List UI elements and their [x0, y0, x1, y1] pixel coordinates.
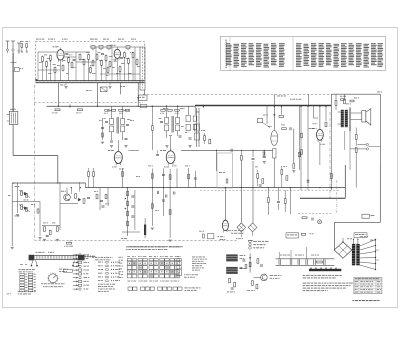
capacitor C40	[100, 199, 103, 201]
wire drop b	[97, 83, 99, 107]
grid cells	[127, 261, 131, 265]
diode D5	[26, 194, 28, 198]
wire tuner v10	[60, 60, 62, 81]
node tick	[202, 105, 204, 108]
transistor Q1	[64, 194, 71, 201]
resistor R33	[335, 101, 337, 106]
label ll	[15, 185, 18, 188]
wire tuner h5	[38, 69, 60, 71]
switch table footer	[18, 290, 21, 293]
resistor R77	[168, 109, 172, 111]
grid legend text2	[184, 273, 185, 276]
power rail top	[276, 258, 335, 260]
grid legend text	[192, 256, 195, 259]
resistor R61	[302, 217, 307, 219]
capacitor C28	[259, 184, 262, 186]
legend row 2	[249, 243, 252, 246]
resistor R18	[132, 53, 134, 58]
wire drop a	[58, 83, 60, 107]
wire tuner v16	[116, 58, 118, 80]
tuning knob	[49, 274, 58, 283]
electrolytic bar	[144, 225, 146, 236]
resistor R39	[331, 174, 333, 179]
resistor R76	[161, 109, 165, 111]
wire mr4	[325, 106, 327, 121]
resistor R73	[111, 109, 115, 111]
wire lc2	[107, 188, 109, 206]
ground g9	[11, 246, 14, 248]
resistor R43	[83, 199, 85, 204]
resistor R82	[105, 194, 107, 198]
wire tuner v13	[88, 59, 90, 80]
grid header row	[127, 255, 130, 258]
ground g7	[151, 227, 154, 229]
transformer tap fan	[360, 240, 376, 247]
resistor R30	[279, 116, 284, 118]
wire drop d	[137, 83, 139, 107]
wire tuner h4	[76, 61, 96, 63]
wire mr2	[307, 106, 309, 190]
resistor R13	[101, 61, 103, 66]
diode D9	[26, 208, 28, 212]
small box K1	[208, 234, 214, 239]
wire chain drop3	[306, 247, 308, 259]
label tuner top	[36, 39, 39, 40]
wire chain drop2	[290, 250, 292, 259]
resistor R53	[151, 204, 153, 209]
wire det drop2	[252, 161, 254, 223]
label pot	[119, 168, 121, 171]
resistor R70	[55, 109, 60, 111]
wire antenna lead	[12, 53, 14, 112]
diode D8	[21, 205, 23, 210]
capacitor C11	[230, 149, 232, 152]
symbol list row 1	[73, 254, 78, 256]
resistor R3	[42, 57, 44, 62]
connector box X2	[139, 95, 148, 101]
IF transformer T1	[110, 119, 114, 125]
wire tuner h3	[64, 56, 76, 58]
capacitor C38	[242, 259, 245, 261]
resistor R51	[169, 175, 171, 180]
capacitor C10	[156, 153, 159, 155]
wire tuner h1	[38, 51, 57, 53]
resistor R45	[88, 172, 90, 177]
ground g3	[165, 145, 168, 147]
resistor R1	[21, 44, 23, 48]
wire lc1	[99, 188, 101, 210]
capacitor C29	[311, 218, 313, 221]
resistor R11	[92, 61, 94, 66]
switch table header	[19, 269, 21, 270]
wire cb2	[289, 188, 291, 214]
resistor R37	[341, 99, 345, 101]
capacitor C23	[162, 199, 165, 201]
resistor R42	[75, 194, 77, 199]
resistor R74	[119, 109, 123, 111]
symbol list row 4	[73, 265, 78, 267]
wire stub t1	[274, 94, 276, 106]
electrolytic can C31	[226, 267, 238, 274]
resistor R26	[151, 126, 153, 131]
mains transformer T5	[352, 244, 355, 265]
label antenna	[20, 40, 23, 43]
antenna terminal A2	[11, 40, 15, 42]
wire anode v5	[298, 106, 300, 170]
symbol list row 3	[73, 262, 78, 264]
label dial	[36, 252, 38, 253]
wire tuner v4	[111, 47, 113, 81]
wire mr5	[331, 126, 333, 190]
capacitor C22	[194, 177, 197, 179]
resistor R23	[107, 68, 109, 73]
resistor R65	[257, 259, 259, 264]
wire tick bus	[69, 104, 71, 108]
tuner enclosure dashed box	[36, 42, 145, 82]
switch table col2	[28, 273, 33, 275]
legend row 3	[249, 247, 252, 250]
resistor R47	[44, 227, 46, 232]
capacitor C9	[189, 137, 192, 139]
wire tuner v14	[101, 65, 103, 80]
output stage box	[331, 93, 380, 95]
ground stub rail 2	[109, 83, 111, 86]
main HT bus	[47, 105, 196, 107]
ground g4	[188, 145, 191, 147]
label knob top	[59, 268, 62, 271]
resistor R4	[46, 62, 48, 67]
wire chain drop1	[279, 252, 281, 259]
wire tuner v8	[50, 60, 52, 80]
lamp branch	[249, 254, 251, 273]
wire det drop1	[240, 160, 242, 223]
ground g5	[43, 238, 46, 240]
resistor R59	[281, 170, 283, 175]
label below rails	[60, 84, 63, 87]
connector box X1	[100, 87, 107, 92]
resistor R19	[136, 60, 138, 65]
resistor R20	[62, 66, 64, 71]
tube V5 EABC80	[271, 131, 278, 146]
coil L1 box	[11, 62, 17, 64]
label cb	[283, 165, 285, 168]
resistor R34	[344, 99, 346, 104]
resistor R36	[355, 148, 357, 153]
pcb outline left	[33, 85, 35, 241]
pcb outline top1	[34, 102, 143, 104]
symbol list header right	[93, 257, 95, 258]
power rail bottom	[276, 264, 335, 266]
symbol list row 5	[73, 269, 78, 271]
ground stub rail 1	[65, 83, 67, 86]
IF transformer T2	[165, 118, 169, 124]
resistor R14	[105, 56, 107, 61]
resistor R52	[188, 174, 190, 179]
resistor R71	[78, 109, 83, 111]
electrolytic can C30	[226, 254, 238, 261]
capacitor C21	[162, 173, 165, 175]
potentiometer P1 chain	[127, 188, 129, 236]
dial bracket left	[29, 255, 34, 260]
resistor R49	[56, 227, 58, 232]
pcb outline bottom	[34, 239, 237, 241]
grid tall cell	[177, 269, 181, 276]
capacitor C14	[289, 127, 291, 130]
symbol row right 2	[98, 264, 101, 267]
resistor R72	[105, 109, 109, 111]
speaker feed wire	[335, 221, 381, 223]
wire cb	[224, 187, 226, 189]
resistor R84	[298, 152, 300, 157]
dial legs left	[32, 260, 34, 265]
wire v5 drop	[273, 158, 275, 188]
switch box S2	[354, 233, 367, 238]
resistor R2	[26, 44, 28, 48]
symbol row right 1	[98, 261, 101, 264]
capacitor C25	[165, 195, 167, 198]
label tone	[43, 222, 46, 225]
resistor R75	[125, 109, 129, 111]
parts table text columns	[226, 42, 230, 45]
label chain	[280, 254, 282, 257]
caption pcb	[129, 246, 133, 247]
dial legs right	[73, 260, 75, 265]
indicator D6	[237, 223, 246, 232]
resistor R21	[54, 68, 56, 73]
capacitor C6	[110, 140, 113, 142]
wire tuner v5	[134, 47, 136, 81]
label transformer	[360, 235, 363, 238]
wire tuner v1	[37, 52, 39, 81]
resistor R44	[87, 196, 90, 198]
caption bottom right	[353, 300, 355, 301]
label T2 parts	[181, 125, 184, 128]
filter capacitor C36	[313, 259, 315, 265]
fuse box F1	[362, 214, 369, 218]
capacitor C7	[125, 137, 128, 139]
wire tuner v3	[95, 47, 97, 81]
capacitor C19	[131, 205, 134, 207]
label mid	[148, 165, 151, 168]
resistor R50	[151, 174, 153, 179]
wire stub t2	[308, 94, 310, 106]
resistor R63	[251, 281, 253, 286]
wire tuner h6	[100, 73, 140, 75]
ground g8	[169, 239, 172, 241]
tube V3	[114, 152, 122, 164]
wire tuner v9	[54, 72, 56, 80]
filter capacitor C35	[305, 259, 307, 265]
symbol row right 6	[98, 279, 100, 282]
resistor R28	[209, 139, 211, 144]
grid row labels	[119, 256, 122, 259]
resistor R57	[257, 174, 259, 179]
bus rail lower	[36, 82, 145, 84]
pcb outline right	[329, 112, 331, 198]
capacitor C5	[120, 56, 123, 58]
resistor R81	[96, 194, 98, 199]
indicator D7	[248, 223, 257, 232]
transformer leads top	[353, 240, 355, 244]
resistor R15	[109, 62, 111, 67]
pcb outline top2	[143, 93, 331, 95]
capacitor C17	[46, 234, 49, 236]
resistor R55	[267, 198, 269, 203]
pcb dash inner	[336, 180, 338, 214]
transistor Q2	[261, 274, 268, 281]
AF main bus	[86, 187, 346, 189]
wire tuner v20	[119, 71, 121, 80]
symbol row right 4	[98, 272, 102, 275]
resistor R8	[79, 55, 81, 60]
tube V1 ECC85	[57, 50, 64, 60]
wire mid verticals	[151, 169, 153, 227]
bridge rectifier GR1	[334, 242, 352, 258]
wire q1	[60, 203, 78, 205]
coil row tuner	[91, 46, 95, 49]
AVC dashed line	[200, 189, 340, 191]
trimmer box	[257, 119, 262, 123]
resistor R54	[169, 210, 171, 215]
resistor R83	[67, 242, 72, 244]
wire tuner v12	[83, 64, 85, 80]
resistor R17	[128, 59, 130, 64]
symbol list row 2	[73, 258, 78, 260]
symbol list row 8	[73, 281, 78, 283]
capacitor C12	[252, 157, 255, 159]
symbol row right 3	[98, 268, 100, 271]
symbol list row 10	[73, 288, 78, 290]
resistor R12	[96, 55, 98, 60]
wire tuner v17	[124, 57, 126, 80]
wire tuner v6	[42, 61, 44, 80]
terminal J1	[366, 143, 368, 145]
resistor R5	[50, 56, 52, 61]
resistor R9	[83, 60, 85, 65]
wire ferrite to AF	[12, 125, 14, 156]
dial extension	[85, 255, 96, 257]
note text rows	[226, 229, 228, 232]
pilot circle	[318, 220, 322, 224]
note block 1	[303, 275, 305, 276]
IF coil T2b	[186, 116, 190, 122]
dashed stub	[298, 212, 332, 214]
antenna terminal A3	[17, 42, 21, 44]
ratio det coil T3	[195, 108, 197, 147]
tiny marks	[20, 263, 23, 266]
ground g2	[124, 145, 127, 147]
coupling box	[217, 153, 232, 188]
resistor R62	[229, 278, 231, 283]
grid bottom labels	[128, 280, 131, 283]
symbol row right 5	[98, 275, 101, 278]
small box knob	[63, 269, 72, 272]
resistor R24	[119, 67, 121, 72]
grid caption	[126, 245, 129, 248]
switch box S1	[286, 233, 299, 238]
filter capacitor C32	[278, 259, 280, 265]
terminal J2	[366, 148, 368, 150]
junction dots	[58, 106, 59, 107]
resistor R16	[124, 53, 126, 58]
capacitor C1	[65, 52, 68, 54]
parts table header column text	[226, 40, 227, 42]
wire grid v5	[266, 106, 268, 124]
bus rail upper	[36, 80, 145, 82]
AF bus left	[13, 182, 85, 184]
resistor R80	[37, 209, 39, 213]
ferrite rod antenna L2	[9, 112, 17, 125]
note block 2	[303, 283, 307, 284]
wire tuner v7	[46, 66, 48, 80]
ground g1	[110, 145, 113, 147]
heater bus	[300, 197, 345, 199]
symbol list row 6	[73, 273, 78, 275]
choke box	[140, 104, 146, 107]
rail end mark	[35, 79, 37, 81]
resistor R7	[71, 63, 73, 68]
margin note	[7, 292, 10, 295]
resistor R6	[68, 58, 70, 63]
resistor R10	[88, 55, 90, 60]
wire v5 right	[293, 129, 295, 163]
symbol list row 7	[73, 277, 78, 279]
resistor R29	[240, 156, 242, 161]
wire ll	[11, 183, 13, 246]
wire mr1	[300, 106, 302, 190]
wire pot	[134, 190, 136, 230]
capacitor C8	[179, 135, 182, 137]
resistor R22	[90, 68, 92, 73]
grid bottom boxes	[128, 287, 132, 290]
left column cap	[102, 118, 104, 140]
resistor R35	[355, 135, 357, 140]
wire tuner v11	[68, 62, 70, 80]
capacitor C41	[102, 205, 105, 207]
resistor R85	[263, 152, 265, 156]
legend row 1	[249, 240, 252, 243]
capacitor C2	[73, 58, 76, 60]
FM tuner right section box	[140, 47, 145, 90]
wire tuner coil row	[90, 46, 140, 48]
tube V2	[114, 49, 120, 58]
resistor R87	[301, 233, 305, 235]
ground g11	[16, 214, 19, 216]
capacitor C3	[101, 52, 104, 54]
diode D4	[21, 191, 23, 196]
antenna terminal A1	[6, 40, 10, 42]
filter capacitor C34	[297, 259, 299, 265]
dial bracket right	[78, 255, 85, 260]
label bus right	[290, 98, 292, 101]
ground g10	[38, 237, 41, 239]
tube V4	[166, 151, 175, 164]
resistor R56	[284, 199, 286, 204]
resistor R58	[262, 179, 264, 184]
tone row	[42, 225, 60, 227]
tube V7	[222, 220, 228, 230]
capacitor C13	[263, 155, 266, 157]
wire tuner v2	[75, 52, 77, 81]
label output top	[340, 95, 342, 98]
capacitor C27	[277, 200, 280, 202]
label T1	[107, 109, 109, 112]
wire ll2	[12, 200, 40, 202]
wire tuner v15	[105, 60, 107, 80]
tube V6 EL95	[309, 127, 311, 130]
wire drop e	[144, 90, 146, 94]
label knob right	[41, 282, 43, 285]
